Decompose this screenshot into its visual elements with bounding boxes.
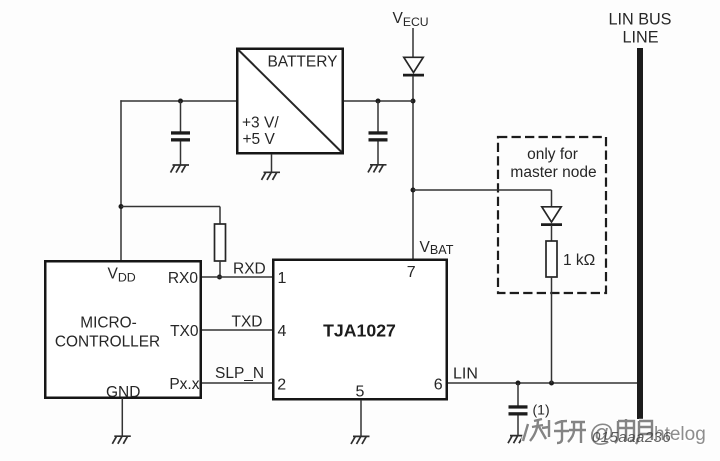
wire diode to VBAT pin 7 [412, 76, 414, 259]
wire R2 to LIN [551, 277, 553, 383]
wire R1 to RXD [219, 261, 221, 277]
node junction at y=190 [411, 188, 416, 193]
capacitor C1 (left decoupling) [171, 131, 190, 141]
wire down to R1 [219, 207, 221, 225]
ground under C3 [508, 436, 527, 444]
capacitor C3 on LIN [509, 405, 528, 415]
wire D2 to R2 [551, 225, 553, 241]
ground under pin 5 [351, 436, 370, 444]
node junction R2 [549, 381, 554, 386]
wire battery to VECU line [343, 100, 413, 102]
wire GND pin to ground [121, 398, 123, 436]
ground under C2 [368, 165, 387, 173]
wire SLP_N [202, 382, 272, 384]
wire C3 to ground [517, 416, 519, 436]
resistor R1 (RXD pull-up) [215, 224, 226, 261]
wire LIN to C3 [517, 383, 519, 406]
wire rail to C1 [180, 101, 182, 132]
resistor R2 1 kOhm [546, 241, 557, 277]
node junction VDD/resistor branch [119, 204, 124, 209]
wire LIN to bus [448, 382, 640, 384]
ground under C1 [171, 165, 190, 173]
ground under battery [262, 172, 281, 180]
svg-text:015aaa236: 015aaa236 [592, 429, 671, 446]
node junction at y=101 [411, 99, 416, 104]
wire VBAT rail to master-node branch [413, 189, 552, 191]
dashed box: only for master node [498, 137, 606, 293]
microcontroller box U2 [45, 261, 201, 401]
node junction left cap [178, 99, 183, 104]
wire C1 to ground [180, 142, 182, 166]
wire down to D2 [551, 190, 553, 208]
ground under microcontroller [112, 436, 131, 444]
node junction R1/RXD [217, 275, 222, 280]
wire left vertical VDD rail [120, 100, 122, 260]
wire rail to C2 [377, 101, 379, 132]
LIN bus thick line [637, 48, 643, 419]
wire main supply rail left of battery [120, 100, 237, 102]
wire RXD [202, 276, 272, 278]
capacitor C2 (right decoupling) [369, 131, 388, 141]
node junction right cap [376, 99, 381, 104]
diode D1 (VECU reverse protection) [403, 57, 424, 75]
wire VECU down to diode [412, 28, 414, 58]
node junction C3 [516, 381, 521, 386]
wire pin5 to ground [360, 400, 362, 436]
wire VDD rail to R1 [121, 206, 220, 208]
wire TXD [202, 329, 272, 331]
wire battery to ground [271, 154, 273, 172]
transceiver U1 TJA1027 box [273, 260, 447, 401]
wire C2 to ground [377, 142, 379, 165]
battery box [237, 49, 343, 154]
diode D2 (master node) [541, 207, 562, 225]
